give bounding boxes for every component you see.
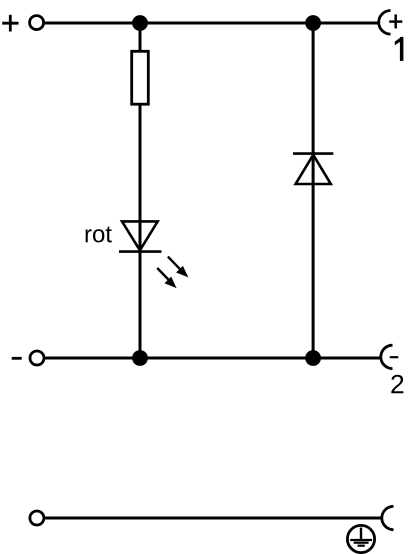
node junction bottom-right: [305, 350, 321, 366]
protective earth ground symbol: [347, 525, 374, 552]
resistor (LED series resistor): [132, 51, 149, 104]
wire diode branch vertical: [312, 23, 315, 358]
pin number 1: [395, 37, 404, 61]
polarity label - at terminal 2: [390, 356, 399, 358]
value label rot (red): [86, 227, 112, 243]
node junction bottom-left: [132, 350, 148, 366]
LED D1 cathode bar: [119, 250, 162, 253]
pin number 2: [391, 375, 403, 394]
polarity label + at terminal 1: [389, 14, 402, 28]
node junction top-left: [132, 15, 148, 31]
wire LED branch vertical: [139, 23, 142, 358]
terminal circle left negative input: [30, 351, 44, 365]
polarity label + (positive supply): [2, 15, 18, 32]
diode D2 cathode bar: [293, 152, 333, 155]
node junction top-right: [305, 15, 321, 31]
wire bottom rail: [45, 357, 381, 360]
LED emission arrow 1: [168, 257, 189, 278]
wire top rail: [45, 22, 379, 25]
terminal earth socket arc: [382, 506, 394, 529]
diode D2 triangle (pointing up): [296, 155, 331, 184]
wire earth rail: [45, 517, 382, 520]
terminal circle left earth input: [30, 511, 44, 525]
terminal 1 socket arc: [379, 11, 391, 35]
polarity label - (negative supply): [12, 357, 22, 360]
LED emission arrow 2: [157, 268, 176, 288]
terminal 2 socket arc: [381, 345, 393, 368]
LED D1 triangle (anode): [122, 221, 158, 250]
terminal circle left positive input: [30, 16, 44, 30]
